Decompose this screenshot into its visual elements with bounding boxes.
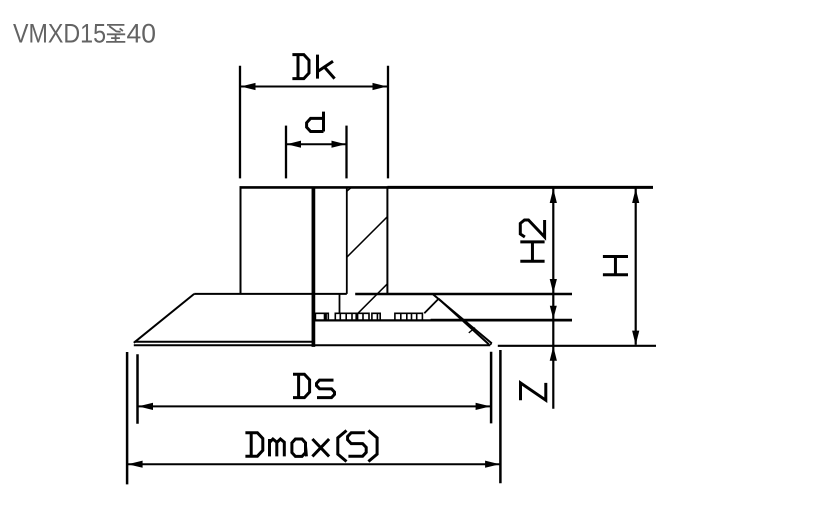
Ds extension line left bbox=[136, 354, 139, 424]
Dmax arrow left bbox=[128, 461, 143, 468]
lip hatch tick bbox=[469, 328, 475, 333]
dimension Dmax line bbox=[127, 463, 500, 465]
body top edge bbox=[240, 186, 388, 189]
dimension d line bbox=[286, 143, 347, 145]
Dmax arrow right bbox=[485, 461, 500, 468]
label Z bbox=[521, 383, 546, 400]
extension line at cleat base bbox=[431, 319, 572, 322]
bore wall bbox=[346, 187, 348, 294]
cleats row bbox=[315, 313, 422, 320]
Ds arrow left bbox=[138, 403, 153, 410]
dimension Dk arrow left bbox=[241, 83, 256, 90]
label H2 bbox=[520, 220, 544, 261]
dimension Dk extension line right bbox=[387, 66, 389, 179]
cleat base line bbox=[313, 319, 444, 321]
svg-text:VMXD15: VMXD15 bbox=[13, 19, 106, 49]
hatch line 1 bbox=[347, 187, 352, 191]
title VMXD15至40 bbox=[13, 19, 156, 49]
Dmax extension line right bbox=[499, 350, 502, 483]
small dimension arrow (cup wall) bbox=[550, 306, 557, 319]
Dmax extension line left bbox=[126, 352, 129, 484]
cup right outer slope bbox=[433, 295, 492, 344]
label Ds bbox=[293, 374, 335, 397]
body left edge bbox=[240, 186, 242, 294]
lip tip closure bbox=[489, 343, 492, 345]
H arrow down bbox=[632, 331, 639, 345]
dimension H line bbox=[635, 188, 637, 344]
cup inner rise bbox=[424, 299, 438, 314]
label H bbox=[603, 257, 628, 275]
cavity step bbox=[339, 294, 341, 314]
body right edge bbox=[386, 186, 388, 294]
H arrow up bbox=[632, 189, 639, 203]
section center line bbox=[312, 187, 316, 347]
dimension Ds line bbox=[138, 405, 492, 407]
label Dk bbox=[292, 55, 334, 79]
H2 arrow up bbox=[550, 189, 557, 203]
rim top line bbox=[135, 341, 314, 343]
Ds arrow right bbox=[476, 403, 491, 410]
hatch line 3 bbox=[358, 284, 388, 314]
rim bottom line bbox=[134, 344, 490, 346]
dimension Dk line bbox=[240, 86, 388, 88]
cup right inner slope bbox=[439, 299, 489, 345]
extension line at cup top (H2 bottom) bbox=[355, 293, 572, 296]
label d bbox=[307, 112, 324, 132]
dimension d arrow right bbox=[332, 141, 346, 148]
dimension H2 line bbox=[552, 188, 554, 408]
dimension d extension line left bbox=[285, 126, 287, 179]
Z arrow up bbox=[550, 346, 557, 360]
Ds extension line right bbox=[490, 352, 493, 424]
svg-text:40: 40 bbox=[127, 19, 156, 49]
dimension Dk arrow right bbox=[373, 83, 388, 90]
dimension d arrow left bbox=[287, 141, 301, 148]
cup top edge bbox=[194, 293, 347, 295]
dimension Dk extension line left bbox=[239, 66, 241, 179]
dimension d extension line right bbox=[345, 126, 347, 179]
top extension line to H dimensions bbox=[387, 186, 653, 189]
cup left slope bbox=[134, 294, 194, 343]
H2 arrow down bbox=[550, 279, 557, 293]
label Dmax(S) bbox=[245, 431, 377, 462]
hatch line 2 bbox=[347, 217, 388, 258]
extension line at rim bottom (H bottom, Z top) bbox=[498, 345, 656, 347]
